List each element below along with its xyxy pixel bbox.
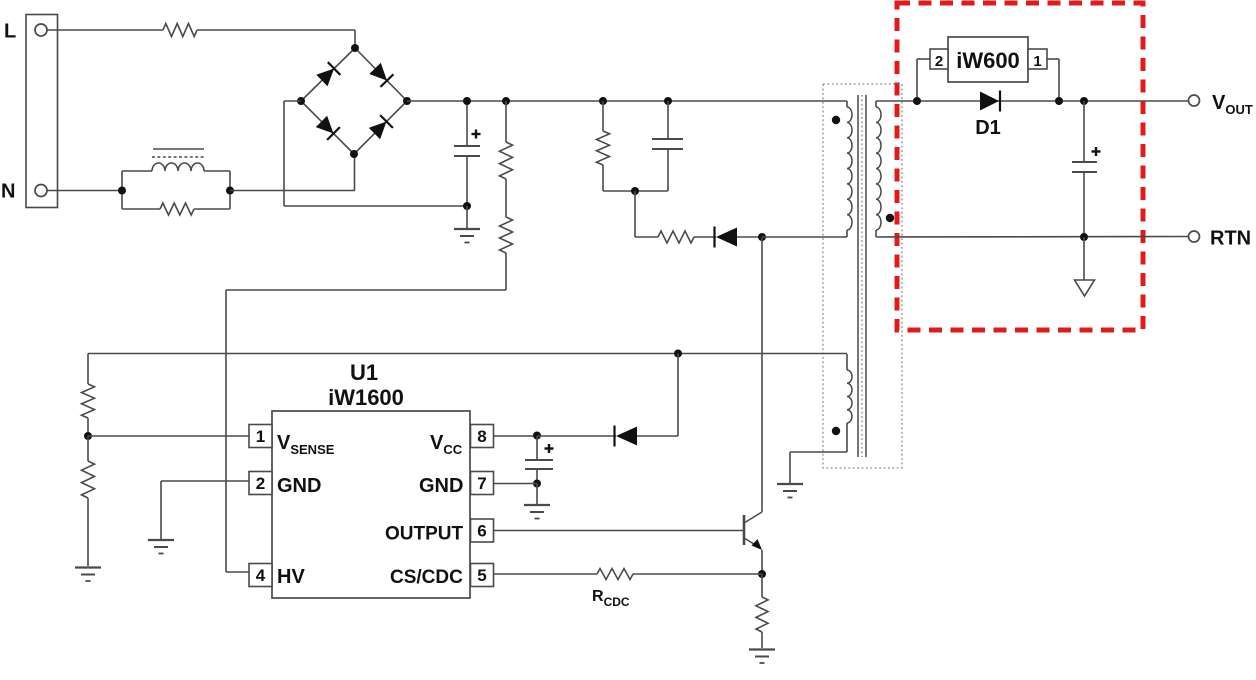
svg-text:6: 6: [477, 522, 486, 541]
terminal VOUT: [1189, 95, 1200, 106]
resistor across choke: [160, 203, 194, 215]
wire fuse to bridge top: [197, 30, 355, 48]
clamp resistor: [597, 101, 610, 191]
wire sense to ground: [87, 498, 89, 566]
svg-text:RTN: RTN: [1210, 228, 1251, 250]
diode D1: [980, 91, 1000, 112]
node output cap bottom: [1080, 233, 1088, 241]
pin label HV: [277, 566, 305, 588]
snubber resistor: [658, 231, 694, 243]
node clamp resistor top: [599, 97, 607, 105]
pin label GND right: [419, 475, 463, 497]
wire bridge left to ground node: [284, 101, 467, 206]
node bulk cap top: [463, 97, 471, 105]
input terminal block: [26, 15, 58, 208]
pin 5 box: [471, 564, 494, 587]
svg-text:VOUT: VOUT: [1212, 92, 1253, 117]
ground sense divider: [75, 568, 101, 582]
node vcc cap bottom: [533, 480, 541, 488]
svg-text:1: 1: [256, 427, 265, 446]
pin 4 box: [249, 564, 272, 587]
wire N to choke: [47, 190, 122, 192]
node choke left: [118, 187, 126, 195]
svg-text:iW600: iW600: [956, 48, 1020, 73]
node emitter: [758, 570, 766, 578]
output capacitor: [1072, 101, 1101, 237]
wire vcc diode to aux: [637, 354, 678, 437]
pin 8 box: [471, 425, 494, 448]
wire vsense to pin1: [88, 435, 249, 437]
svg-text:L: L: [4, 21, 16, 43]
pin label CS/CDC: [390, 567, 463, 588]
node divider top: [502, 97, 510, 105]
svg-text:7: 7: [477, 474, 486, 493]
iW600 pin 1 box: [1028, 49, 1047, 70]
fuse F1: [163, 24, 197, 37]
svg-text:RCDC: RCDC: [592, 588, 630, 609]
svg-text:8: 8: [477, 427, 486, 446]
bridge diode bottom-left: [316, 116, 340, 140]
pin 1 box: [249, 425, 272, 448]
svg-text:GND: GND: [419, 475, 463, 497]
wire vcc node to diode: [537, 435, 616, 437]
wire pin2 to ground: [161, 481, 249, 539]
node bridge right: [403, 97, 411, 105]
resistor sense lower: [82, 436, 95, 498]
transformer secondary winding: [876, 101, 881, 237]
primary phase dot: [832, 116, 840, 124]
node bridge left: [297, 97, 305, 105]
wire iW600 pin1 to output: [1047, 59, 1059, 101]
svg-text:OUTPUT: OUTPUT: [385, 524, 464, 545]
transistor Q1: [744, 512, 762, 550]
wire startup to HV pin: [226, 290, 506, 572]
label U1: [350, 360, 378, 385]
pin 2 box: [249, 472, 272, 495]
wire snubber diode to primary node: [737, 236, 762, 238]
snubber diode: [715, 227, 738, 248]
label N: [1, 181, 15, 203]
label D1: [975, 117, 1001, 139]
ground output (open triangle): [1075, 280, 1095, 296]
resistor RCDC: [597, 569, 633, 580]
node aux-vcc junction: [674, 350, 682, 358]
resistor startup upper: [500, 101, 513, 179]
svg-text:iW1600: iW1600: [328, 385, 404, 410]
pin label VCC: [430, 432, 463, 457]
svg-text:GND: GND: [277, 475, 321, 497]
bridge diode top-right: [369, 63, 393, 87]
label RCDC: [592, 588, 630, 609]
label RTN: [1210, 228, 1251, 250]
choke L1 (inductor with damping resistor): [122, 149, 230, 209]
resistor sense upper: [82, 384, 95, 418]
iW600 pin 2 box: [930, 49, 948, 70]
node d1 cathode: [1055, 97, 1063, 105]
wire snubber resistor to diode: [694, 236, 716, 238]
svg-text:4: 4: [256, 566, 266, 585]
svg-text:VCC: VCC: [430, 432, 463, 457]
transformer auxiliary winding: [847, 354, 852, 452]
aux phase dot: [832, 427, 840, 435]
wire to output ground: [1083, 237, 1085, 280]
wire L to fuse: [47, 29, 163, 31]
wire pin7 to vcc gnd: [494, 484, 537, 505]
bridge diode bottom-right: [369, 115, 393, 139]
red dashed highlight box: [897, 3, 1143, 330]
node primary bottom: [758, 233, 766, 241]
wire to primary ground: [466, 206, 468, 228]
wire iW600 pin2 to secondary: [917, 59, 930, 101]
pin label VSENSE: [277, 432, 335, 457]
iW600 box: [948, 37, 1028, 82]
node clamp cap top: [664, 97, 672, 105]
svg-text:N: N: [1, 181, 15, 203]
node clamp bottom: [631, 187, 639, 195]
terminal RTN: [1189, 231, 1200, 242]
pin label OUTPUT: [385, 524, 464, 545]
vcc diode: [615, 426, 638, 447]
node bridge top: [351, 44, 359, 52]
wire between startup resistors: [505, 179, 507, 217]
svg-text:VSENSE: VSENSE: [277, 432, 335, 457]
transformer core: [858, 95, 866, 457]
svg-text:HV: HV: [277, 566, 305, 588]
wire main DC rail: [407, 100, 847, 102]
resistor startup lower: [500, 217, 513, 290]
bridge diode top-left: [316, 62, 340, 86]
terminal N: [35, 185, 47, 197]
svg-text:2: 2: [935, 53, 943, 70]
transformer primary winding: [847, 101, 852, 237]
label VOUT: [1212, 92, 1253, 117]
node bridge bottom: [350, 150, 358, 158]
pin 6 box: [471, 519, 494, 542]
label iW1600: [328, 385, 404, 410]
clamp capacitor: [652, 101, 683, 191]
terminal L: [35, 24, 47, 36]
vcc capacitor: [525, 436, 554, 484]
bulk capacitor C1: [454, 101, 481, 206]
svg-text:CS/CDC: CS/CDC: [390, 567, 463, 588]
wire rcdc to emitter: [633, 573, 762, 575]
pin 7 box: [471, 472, 494, 495]
svg-text:1: 1: [1033, 53, 1041, 70]
ground pin2: [148, 540, 174, 554]
resistor current sense: [756, 574, 768, 648]
wire emitter: [761, 550, 763, 574]
wire choke to bridge bottom: [230, 154, 355, 191]
wire pin6 to base: [494, 530, 744, 532]
pin label GND left: [277, 475, 321, 497]
svg-text:D1: D1: [975, 117, 1001, 139]
wire sense line: [88, 353, 847, 355]
wire sense divider top: [87, 354, 89, 385]
svg-text:5: 5: [477, 566, 486, 585]
node vcc: [533, 432, 541, 440]
wire secondary top: [876, 100, 1189, 102]
ground primary: [454, 229, 480, 243]
wire pin8 to vcc node: [494, 435, 537, 437]
transformer dotted outline: [823, 84, 902, 468]
svg-text:2: 2: [256, 474, 265, 493]
wire pin5 to rcdc: [494, 573, 597, 575]
wire clamp bottom: [603, 190, 668, 192]
node secondary-iw600: [913, 97, 921, 105]
wire primary bottom: [762, 236, 847, 238]
label L: [4, 21, 16, 43]
ground aux: [777, 484, 803, 498]
ground vcc: [524, 505, 550, 519]
svg-text:U1: U1: [350, 360, 378, 385]
op-amp U1 iW1600 body: [272, 411, 470, 598]
node bulk cap bottom: [463, 202, 471, 210]
wire sense mid upper: [87, 418, 89, 436]
wire clamp to snubber: [635, 191, 658, 237]
ground sense resistor: [749, 650, 775, 664]
node output cap top: [1080, 97, 1088, 105]
node vsense: [84, 432, 92, 440]
wire collector: [761, 237, 763, 512]
bridge rectifier BR1 arms: [301, 48, 407, 154]
wire aux to ground: [790, 452, 847, 483]
secondary phase dot: [886, 214, 894, 222]
node choke right: [226, 187, 234, 195]
wire RTN: [876, 236, 1189, 239]
